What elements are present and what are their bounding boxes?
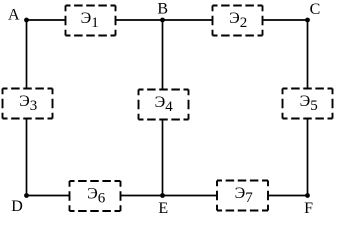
wire element 1 to B bbox=[116, 19, 163, 21]
node F junction dot bbox=[305, 193, 310, 198]
element Э2 (dashed box) bbox=[213, 6, 263, 36]
node B junction dot bbox=[160, 18, 165, 23]
wire element 3 to D bbox=[26, 119, 28, 196]
wire element 4 to E bbox=[162, 120, 164, 196]
element Э3 (dashed box) bbox=[3, 89, 53, 119]
node E junction dot bbox=[160, 193, 165, 198]
wire element 5 to F bbox=[307, 119, 309, 196]
element Э4 (dashed box) bbox=[139, 90, 189, 120]
wire element 7 to F bbox=[268, 195, 308, 197]
svg-text:D: D bbox=[11, 198, 23, 215]
wire E to element 7 bbox=[163, 195, 218, 197]
svg-text:F: F bbox=[304, 200, 313, 217]
element Э7 (dashed box) bbox=[217, 181, 268, 211]
svg-text:B: B bbox=[157, 1, 168, 18]
element Э5 (dashed box) bbox=[283, 89, 333, 119]
wire A to element 3 bbox=[26, 20, 28, 89]
wire B to element 2 bbox=[163, 19, 213, 21]
svg-text:C: C bbox=[310, 1, 321, 18]
wire B to element 4 bbox=[162, 20, 164, 90]
wire element 2 to C bbox=[263, 19, 308, 21]
wire D to element 6 bbox=[27, 195, 70, 197]
node D junction dot bbox=[24, 193, 29, 198]
wire A to element 1 bbox=[27, 19, 66, 21]
wire C to element 5 bbox=[307, 20, 309, 89]
wire element 6 to E bbox=[121, 195, 163, 197]
node A junction dot bbox=[24, 18, 29, 23]
element Э1 (dashed box) bbox=[66, 6, 116, 36]
element Э6 (dashed box) bbox=[70, 181, 121, 211]
svg-text:E: E bbox=[158, 200, 168, 217]
svg-text:A: A bbox=[8, 7, 20, 24]
node C junction dot bbox=[305, 18, 310, 23]
